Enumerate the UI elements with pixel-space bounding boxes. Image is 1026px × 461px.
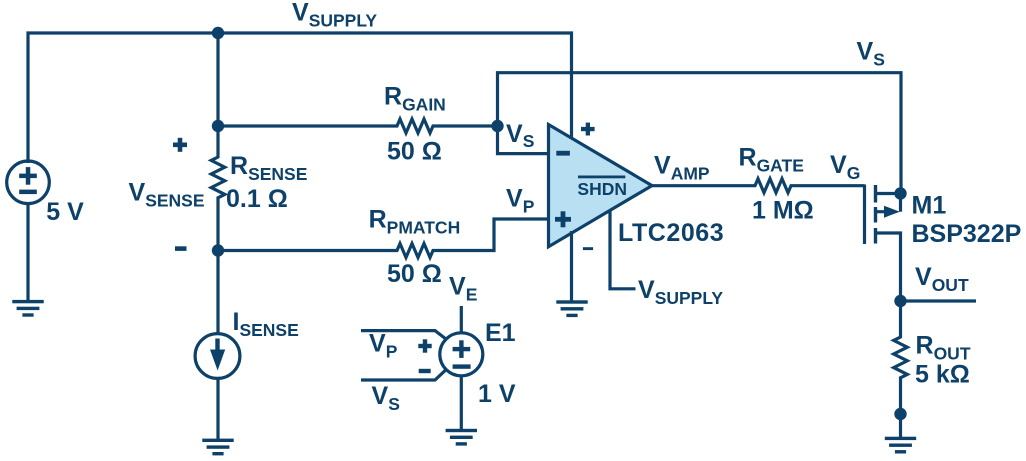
svg-text:E1: E1 [485, 319, 516, 347]
svg-text:VSENSE: VSENSE [129, 178, 205, 210]
svg-text:VG: VG [830, 151, 860, 183]
current source I_SENSE [195, 334, 240, 379]
label 1 V [478, 380, 516, 408]
wire V_S node to inverting input [498, 126, 550, 154]
body stub with arrow [876, 210, 886, 213]
resistor R_OUT (vertical) [894, 301, 908, 414]
svg-text:LTC2063: LTC2063 [618, 219, 724, 247]
label R_OUT [916, 331, 971, 363]
svg-text:RGAIN: RGAIN [384, 83, 446, 115]
resistor R_SENSE (vertical) [211, 126, 225, 251]
svg-text:RGATE: RGATE [739, 144, 804, 176]
label R_GAIN [384, 83, 446, 115]
wire E1 sense bracket upper (V_P) [361, 331, 446, 340]
label 50 ohm (R_PMATCH) [387, 260, 442, 288]
label R_GATE [739, 144, 804, 176]
label 0.1 ohm [226, 185, 288, 213]
svg-text:1 V: 1 V [478, 380, 516, 408]
svg-text:VSUPPLY: VSUPPLY [638, 276, 723, 308]
svg-text:VS: VS [372, 382, 400, 414]
label V_E [449, 273, 477, 305]
label R_SENSE [230, 152, 307, 184]
drain stub [876, 233, 901, 301]
node V_SUPPLY junction dot [212, 27, 224, 39]
ground (E1) [446, 429, 477, 446]
node R_SENSE bottom junction dot [212, 244, 224, 256]
svg-text:0.1 Ω: 0.1 Ω [226, 185, 288, 213]
svg-text:50 Ω: 50 Ω [387, 260, 442, 288]
svg-text:ROUT: ROUT [916, 331, 971, 363]
op-amp U1 LTC2063 [549, 125, 653, 247]
controlled source E1 [440, 333, 483, 376]
label V_S (at op amp) [506, 120, 534, 151]
node V_S junction dot [491, 120, 503, 132]
label LTC2063 [618, 219, 724, 247]
svg-text:RPMATCH: RPMATCH [369, 206, 461, 238]
node MOSFET source dot [894, 187, 906, 199]
body to source tie [899, 194, 902, 212]
svg-text:5 V: 5 V [46, 198, 84, 226]
label V_S (E1 control) [372, 382, 400, 414]
channel segments [874, 185, 877, 244]
ground (I_SENSE) [202, 439, 233, 456]
svg-text:VSUPPLY: VSUPPLY [292, 0, 377, 31]
label - (R_SENSE) [175, 246, 187, 251]
svg-text:SHDN: SHDN [577, 179, 627, 199]
wire R_PMATCH row [218, 219, 549, 258]
label V_G [830, 151, 860, 183]
wire R_GAIN row [218, 119, 498, 133]
label V_AMP [654, 151, 710, 183]
svg-text:VS: VS [857, 37, 885, 69]
label V_P (E1 control) [369, 329, 398, 361]
label I_SENSE [233, 308, 299, 340]
wire E1 sense bracket lower (V_S) [361, 370, 446, 380]
label V_SENSE [129, 178, 205, 210]
label V_OUT [915, 263, 969, 295]
voltage source 5 V [7, 161, 50, 204]
label + (non-inverting input) [555, 211, 571, 227]
svg-text:VAMP: VAMP [654, 151, 710, 183]
wire V_SUPPLY node down to R_SENSE top [216, 33, 219, 126]
label M1 [912, 192, 947, 220]
node V_OUT junction dot [894, 295, 906, 307]
ground (op-amp) [556, 300, 587, 317]
wire op-amp output V_AMP through R_GATE to gate [652, 179, 865, 193]
wire I_SENSE branch [216, 251, 219, 442]
svg-text:50 Ω: 50 Ω [387, 138, 442, 166]
label V_SUPPLY (top) [292, 0, 377, 31]
wire SHDN pin to V_SUPPLY [610, 210, 636, 289]
wire negative supply pin to ground [570, 231, 573, 303]
source stub [876, 192, 901, 195]
svg-text:VE: VE [449, 273, 477, 305]
label V_SUPPLY (SHDN tie) [638, 276, 723, 308]
wire positive supply pin (from rail, drawn above) + label + [581, 123, 595, 136]
svg-text:RSENSE: RSENSE [230, 152, 307, 184]
label R_PMATCH [369, 206, 461, 238]
label BSP322P [912, 220, 1022, 248]
arrow (PMOS body arrow) [884, 206, 900, 218]
label + (E1 control) [418, 339, 431, 352]
wire V_S node up and across to MOSFET source [498, 73, 902, 194]
wire R_OUT bottom to ground [899, 414, 902, 440]
label V_P (at op amp) [506, 185, 535, 217]
label 1 Mohm [752, 196, 814, 224]
wire 5V source to ground [26, 204, 29, 304]
node R_OUT bottom dot [894, 408, 906, 420]
wire V_OUT stub [901, 299, 977, 302]
transistor M1 BSP322P (PMOS) [865, 185, 901, 302]
label SHDN with overline [577, 176, 627, 199]
label 5 kohm [915, 361, 970, 389]
svg-text:VP: VP [506, 185, 535, 217]
node R_SENSE top junction dot [212, 120, 224, 132]
wire E1 bottom to ground [460, 376, 463, 432]
svg-text:BSP322P: BSP322P [912, 220, 1022, 248]
label - (inverting input) [556, 151, 570, 156]
label 50 ohm (R_GAIN) [387, 138, 442, 166]
svg-text:5 kΩ: 5 kΩ [915, 361, 970, 389]
label - (negative supply) [583, 247, 593, 250]
gate electrode [863, 185, 866, 245]
label V_S (top right) [857, 37, 885, 69]
svg-text:VOUT: VOUT [915, 263, 969, 295]
svg-text:ISENSE: ISENSE [233, 308, 299, 340]
label - (E1 control) [419, 369, 431, 373]
svg-text:VP: VP [369, 329, 398, 361]
ground (R_OUT) [885, 437, 916, 454]
svg-text:1 MΩ: 1 MΩ [752, 196, 814, 224]
wire top V_SUPPLY rail [28, 33, 572, 163]
label 5 V [46, 198, 84, 226]
svg-text:M1: M1 [912, 192, 947, 220]
svg-text:VS: VS [506, 120, 534, 151]
label + (R_SENSE) [173, 138, 187, 152]
ground (5 V source) [12, 300, 43, 317]
label E1 [485, 319, 516, 347]
wire V_E to E1 top [460, 306, 463, 333]
